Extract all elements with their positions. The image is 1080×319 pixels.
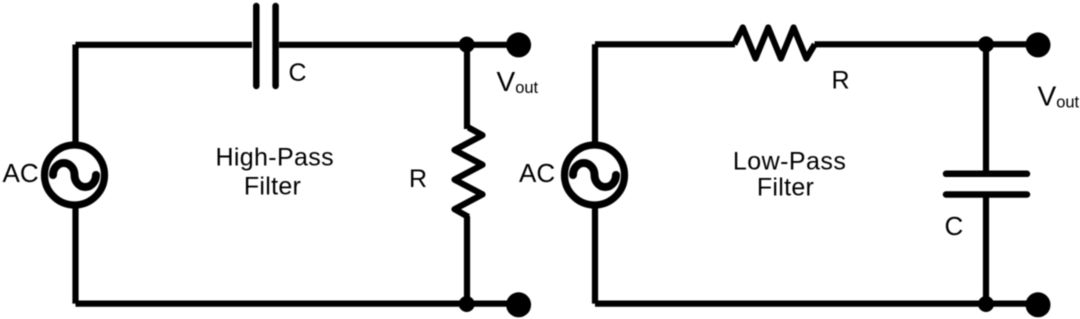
wire: top horizontal from resistor to output terminal (815, 41, 1038, 47)
wire: vertical from top node down to capacitor (983, 44, 989, 171)
svg-text:Filter: Filter (244, 173, 301, 201)
wire: bottom horizontal of high-pass loop (76, 301, 519, 307)
terminal: Vout terminal dot top (left circuit) (506, 32, 531, 57)
svg-text:C: C (289, 59, 307, 87)
svg-text:Low-Pass: Low-Pass (733, 147, 846, 175)
node: bottom junction (right circuit) (978, 296, 994, 312)
svg-text:High-Pass: High-Pass (215, 143, 333, 171)
svg-text:R: R (832, 67, 850, 95)
AC source (right) sine wave (573, 163, 616, 187)
svg-text:Filter: Filter (757, 173, 814, 201)
wire: right vertical from top node down to resistor (464, 45, 470, 130)
capacitor C bottom plate (946, 191, 1027, 198)
terminal: bottom reference terminal dot (left circuit) (506, 292, 531, 317)
capacitor C right plate (272, 6, 279, 86)
svg-text:R: R (409, 165, 427, 193)
resistor R (shunt, vertical zigzag) (455, 128, 483, 218)
wire: bottom horizontal of low-pass loop (595, 301, 1037, 307)
node: bottom junction (left circuit) (459, 296, 475, 312)
capacitor C (shunt, horizontal plates) top plate (946, 171, 1027, 178)
node: top output junction (left circuit) (459, 37, 475, 53)
AC source (left) sine wave (53, 163, 96, 187)
wire: from resistor bottom to bottom node (464, 216, 470, 304)
resistor R (series, horizontal zigzag) (734, 28, 815, 59)
AC source (left) circle (45, 145, 105, 205)
wire: from capacitor bottom plate to bottom node (983, 198, 989, 305)
node: top output junction (right circuit) (978, 36, 994, 52)
wire: top horizontal from source to capacitor left plate (76, 42, 253, 48)
svg-text:AC: AC (519, 158, 555, 188)
svg-text:AC: AC (3, 158, 39, 188)
AC source (right) circle (565, 145, 625, 205)
terminal: bottom reference terminal dot (right circuit) (1026, 292, 1051, 317)
capacitor C (series, vertical plates) left plate (253, 6, 260, 86)
wire: left vertical branch of low-pass loop (592, 44, 598, 303)
terminal: Vout terminal dot top (right circuit) (1026, 32, 1051, 57)
wire: top horizontal from capacitor right plate to output terminal (279, 42, 518, 48)
wire: left vertical branch of high-pass loop (72, 45, 78, 304)
wire: top horizontal from source to resistor (595, 41, 735, 47)
svg-text:C: C (945, 211, 964, 241)
